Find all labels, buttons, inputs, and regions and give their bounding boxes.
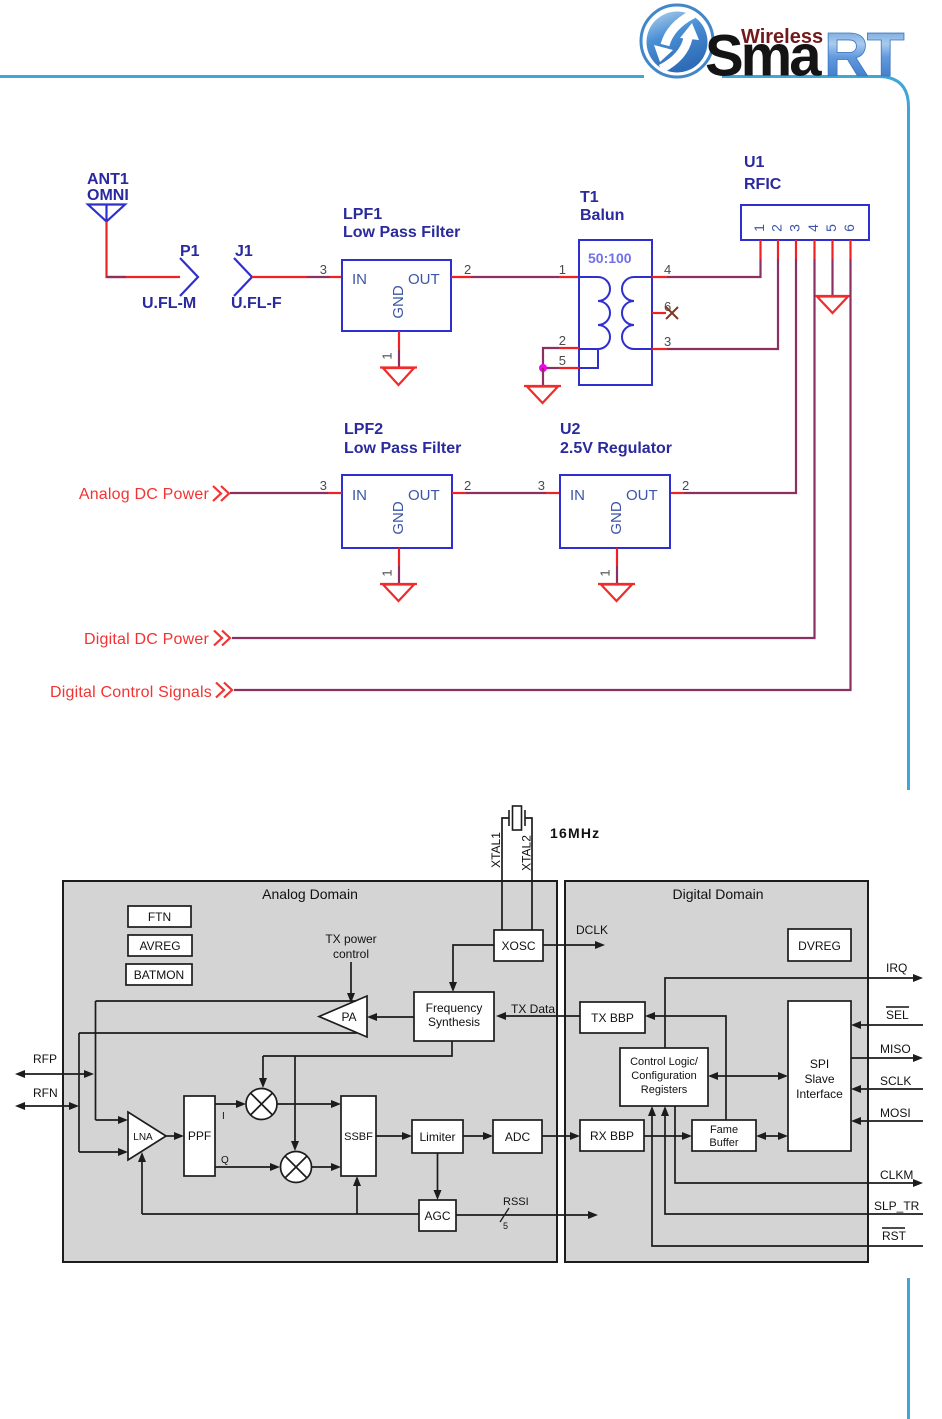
pin number 3 of T1 [664, 334, 671, 349]
ground under U1 pin5 [814, 296, 851, 313]
label ANT1 [87, 171, 129, 188]
svg-text:3: 3 [787, 224, 803, 232]
pin 6 stub and no-connect cross [652, 307, 678, 319]
label Low Pass Filter [343, 224, 460, 241]
regulator U2 [560, 475, 670, 548]
block SPI Slave Interface [788, 1001, 851, 1151]
svg-text:MOSI: MOSI [880, 1106, 911, 1120]
arrow Limiter to ADC [463, 1132, 493, 1140]
svg-text:5: 5 [503, 1221, 508, 1231]
svg-text:GND: GND [608, 501, 625, 535]
wire frame buffer to TX BBP [645, 1012, 726, 1120]
U1 pin number 5 [823, 224, 839, 232]
wire U1 pin6 digital control net [234, 259, 851, 690]
block BATMON [126, 964, 192, 985]
wire T1 pin5 to junction [543, 367, 579, 369]
svg-text:3: 3 [320, 262, 327, 277]
svg-text:SSBF: SSBF [344, 1131, 373, 1143]
svg-text:2: 2 [559, 333, 566, 348]
RSSI bus slash and width 5 [500, 1208, 509, 1231]
pin number 1 of LPF1 (gnd pin) [379, 352, 394, 359]
pin number 1 of U2 (gnd) [597, 569, 612, 576]
svg-text:5: 5 [559, 353, 566, 368]
arrow RX BBP to frame buffer [644, 1132, 692, 1140]
label TX power control [325, 932, 376, 961]
label IRQ [886, 961, 907, 975]
svg-text:Sma: Sma [705, 24, 822, 89]
svg-text:3: 3 [664, 334, 671, 349]
port Digital DC Power [84, 631, 230, 649]
pin number 3 of LPF1 [320, 262, 327, 277]
IRQ wire [665, 974, 923, 1048]
svg-text:16MHz: 16MHz [550, 825, 600, 841]
svg-text:OUT: OUT [626, 487, 658, 504]
label MOSI [880, 1106, 911, 1120]
port Digital Control Signals [50, 683, 232, 702]
label TX Data [511, 1002, 555, 1016]
svg-text:Balun: Balun [580, 207, 624, 224]
svg-text:XTAL1: XTAL1 [489, 832, 503, 868]
MISO wire [851, 1054, 923, 1062]
svg-text:FTN: FTN [148, 910, 171, 924]
wire U1 pin3 to U2 out [670, 259, 796, 493]
svg-text:1: 1 [597, 569, 612, 576]
pin number 3 of LPF2 [320, 478, 327, 493]
pin number 1 of T1 [559, 262, 566, 277]
label T1 [580, 189, 599, 206]
svg-text:GND: GND [390, 501, 407, 535]
label LPF2 [344, 421, 383, 438]
svg-text:1: 1 [559, 262, 566, 277]
svg-text:LNA: LNA [133, 1132, 153, 1143]
pin number 2 of LPF2 [464, 478, 471, 493]
svg-text:4: 4 [805, 224, 821, 232]
crystal 16MHz [509, 806, 525, 830]
label U.FL-F [231, 295, 282, 312]
pin number 2 of T1 [559, 333, 566, 348]
label SLP_TR [874, 1199, 920, 1213]
ground under U2 [598, 584, 635, 601]
amplifier LNA [128, 1112, 166, 1160]
svg-text:Q: Q [221, 1155, 229, 1166]
svg-text:Fame: Fame [710, 1124, 738, 1136]
RSSI wire from AGC into digital domain [456, 1211, 598, 1219]
analog domain box [63, 881, 557, 1262]
MOSI wire [851, 1117, 923, 1125]
filter LPF1 [342, 260, 451, 331]
SLP_TR wire [661, 1106, 923, 1214]
junction dot [539, 364, 547, 372]
label RST with overline [882, 1228, 907, 1243]
svg-text:OUT: OUT [408, 271, 440, 288]
svg-text:DCLK: DCLK [576, 923, 608, 937]
wire PPF to mixer I [215, 1100, 246, 1108]
svg-text:Slave: Slave [804, 1072, 834, 1086]
U1 pin number 6 [841, 224, 857, 232]
block TX BBP [580, 1002, 645, 1033]
svg-text:CLKM: CLKM [880, 1168, 913, 1182]
svg-text:TX Data: TX Data [511, 1002, 555, 1016]
wire analog dc power to LPF2 [230, 492, 342, 494]
svg-text:PPF: PPF [188, 1129, 211, 1143]
svg-text:PA: PA [341, 1010, 356, 1024]
label SCLK [880, 1074, 911, 1088]
antenna ANT1 [88, 205, 125, 222]
svg-text:RST: RST [882, 1229, 907, 1243]
label OMNI [87, 187, 129, 204]
connector J1 U.FL-F [234, 258, 252, 296]
svg-text:OUT: OUT [408, 487, 440, 504]
page top rule (blue) with rounded corner into right border [0, 77, 909, 791]
svg-text:OMNI: OMNI [87, 187, 129, 204]
ground under LPF2 [380, 584, 417, 601]
wire LPF2 gnd pin [398, 548, 400, 584]
svg-text:I: I [222, 1111, 225, 1122]
svg-text:Analog DC Power: Analog DC Power [79, 486, 210, 503]
block RX BBP [580, 1120, 644, 1151]
label Balun [580, 207, 624, 224]
svg-text:RT: RT [824, 21, 905, 90]
CLKM wire [675, 1106, 923, 1187]
wire mixer I to SSBF [277, 1100, 341, 1108]
digital domain box [565, 881, 868, 1262]
wire junction to ground [542, 368, 544, 386]
ground under T1 [524, 386, 561, 403]
svg-text:Synthesis: Synthesis [428, 1015, 480, 1029]
pin number 4 of T1 [664, 262, 671, 277]
block Frequency Synthesis [414, 992, 494, 1041]
label Q [221, 1155, 229, 1166]
block FTN [128, 906, 191, 927]
wire PA upper tap [96, 1000, 357, 1002]
label RFP [33, 1052, 57, 1066]
pin number 3 of U2 [538, 478, 545, 493]
mixer Q [281, 1152, 312, 1183]
ground under LPF1 [380, 368, 417, 386]
label RFN [33, 1086, 58, 1100]
label CLKM [880, 1168, 913, 1182]
SCLK wire [851, 1085, 923, 1093]
svg-text:Interface: Interface [796, 1087, 843, 1101]
logo word RT [824, 21, 905, 90]
svg-text:RX BBP: RX BBP [590, 1129, 634, 1143]
label Digital Domain [672, 886, 763, 902]
label RSSI [503, 1196, 529, 1208]
AGC control wire to LNA and SSBF [138, 1152, 419, 1214]
svg-text:Control Logic/: Control Logic/ [630, 1056, 699, 1068]
arrow rail to LNA upper input [96, 1116, 129, 1124]
rail RFP vertical [95, 1001, 97, 1120]
svg-text:Configuration: Configuration [631, 1070, 696, 1082]
svg-text:Frequency: Frequency [426, 1001, 483, 1015]
arrow rail to LNA lower input [79, 1148, 128, 1156]
U1 pin number 2 [769, 224, 785, 232]
pin number 1 of LPF2 (gnd) [379, 569, 394, 576]
svg-text:P1: P1 [180, 243, 200, 260]
logo background patch [644, 70, 722, 83]
RST wire [648, 1106, 923, 1246]
svg-text:RFN: RFN [33, 1086, 58, 1100]
U1 pin number 1 [751, 224, 767, 232]
svg-text:SLP_TR: SLP_TR [874, 1199, 920, 1213]
mixer I [246, 1089, 277, 1120]
svg-text:3: 3 [320, 478, 327, 493]
wire U1 pin4 digital dc power net [232, 259, 815, 638]
svg-text:U2: U2 [560, 421, 581, 438]
wire T1 pin2 to junction [543, 348, 579, 368]
svg-text:TX BBP: TX BBP [591, 1011, 634, 1025]
wire antenna to P1 [107, 222, 181, 278]
svg-text:MISO: MISO [880, 1042, 911, 1056]
block AGC [419, 1200, 456, 1231]
label XTAL1 [489, 832, 503, 868]
logo globe icon [641, 5, 713, 77]
wire U1 pin5 to ground [831, 259, 833, 296]
svg-text:IN: IN [352, 487, 367, 504]
block Limiter [412, 1120, 463, 1153]
svg-text:U1: U1 [744, 154, 765, 171]
arrow LNA to PPF [166, 1132, 184, 1140]
svg-text:ANT1: ANT1 [87, 171, 129, 188]
arrow TX power control to PA [347, 962, 355, 1003]
pin number 6 of T1 [664, 299, 671, 314]
wire PA lower tap [79, 1032, 357, 1034]
block PPF [184, 1096, 215, 1176]
wire LPF1 out to T1 pin1 [451, 276, 579, 278]
svg-text:LPF1: LPF1 [343, 206, 382, 223]
label P1 [180, 243, 200, 260]
wire TX Data from TX BBP to frequency synthesis [496, 1012, 580, 1020]
arrow ADC to RX BBP [542, 1132, 580, 1140]
U1 pin number 3 [787, 224, 803, 232]
svg-text:RFIC: RFIC [744, 176, 782, 193]
label I [222, 1111, 225, 1122]
svg-text:Digital Domain: Digital Domain [672, 886, 763, 902]
label 2.5V Regulator [560, 440, 672, 457]
block Control Logic Configuration Registers [620, 1048, 708, 1106]
wire XOSC to frequency synthesis [449, 945, 494, 992]
label Low Pass Filter 2 [344, 440, 461, 457]
svg-text:LPF2: LPF2 [344, 421, 383, 438]
label Analog Domain [262, 886, 358, 902]
block DVREG [788, 929, 851, 961]
svg-text:U.FL-M: U.FL-M [142, 295, 196, 312]
wire J1 to LPF1 pin3 [252, 276, 342, 278]
wire LPF1 gnd pin [398, 331, 400, 367]
label 16MHz [550, 825, 600, 841]
svg-text:IN: IN [352, 271, 367, 288]
label RFIC [744, 176, 782, 193]
svg-text:5: 5 [823, 224, 839, 232]
svg-text:SCLK: SCLK [880, 1074, 911, 1088]
pin number 2 of LPF1 [464, 262, 471, 277]
SEL wire [851, 1021, 923, 1029]
wire XTAL2 [525, 818, 532, 930]
filter LPF2 [342, 475, 452, 548]
logo word Sma [705, 24, 822, 89]
wire U2 gnd pin [616, 548, 618, 584]
svg-text:TX power: TX power [325, 932, 376, 946]
label SEL with overline [886, 1007, 909, 1022]
svg-text:2: 2 [464, 262, 471, 277]
port Analog DC Power [79, 486, 229, 503]
svg-text:AVREG: AVREG [139, 939, 180, 953]
svg-text:2: 2 [464, 478, 471, 493]
svg-text:control: control [333, 947, 369, 961]
svg-text:Limiter: Limiter [419, 1130, 455, 1144]
svg-text:GND: GND [390, 285, 407, 319]
pin number 5 of T1 [559, 353, 566, 368]
svg-text:2: 2 [769, 224, 785, 232]
page right border lower segment [907, 1278, 910, 1419]
svg-text:2: 2 [682, 478, 689, 493]
svg-text:SEL: SEL [886, 1008, 909, 1022]
svg-text:1: 1 [379, 569, 394, 576]
rail RFN vertical [78, 1033, 80, 1152]
label U.FL-M [142, 295, 196, 312]
wire XTAL1 [502, 818, 509, 930]
svg-text:AGC: AGC [424, 1209, 450, 1223]
svg-text:J1: J1 [235, 243, 253, 260]
arrow SSBF to Limiter [376, 1132, 412, 1140]
svg-text:U.FL-F: U.FL-F [231, 295, 282, 312]
svg-text:6: 6 [841, 224, 857, 232]
svg-text:Digital Control Signals: Digital Control Signals [50, 684, 212, 701]
wire LPF2 out to U2 in [452, 492, 560, 494]
label J1 [235, 243, 253, 260]
svg-text:IRQ: IRQ [886, 961, 907, 975]
connector P1 U.FL-M [180, 258, 198, 296]
port RFN arrow [15, 1102, 79, 1110]
svg-text:1: 1 [379, 352, 394, 359]
svg-text:IN: IN [570, 487, 585, 504]
svg-text:2.5V Regulator: 2.5V Regulator [560, 440, 672, 457]
svg-text:XOSC: XOSC [501, 939, 535, 953]
svg-text:DVREG: DVREG [798, 939, 841, 953]
block ADC [493, 1120, 542, 1153]
svg-text:RFP: RFP [33, 1052, 57, 1066]
svg-text:Low Pass Filter: Low Pass Filter [343, 224, 460, 241]
svg-text:4: 4 [664, 262, 671, 277]
port RFP arrow [15, 1070, 94, 1078]
svg-text:SPI: SPI [810, 1057, 829, 1071]
block Fame Buffer [692, 1120, 756, 1151]
label XTAL2 [520, 835, 534, 871]
label U2 [560, 421, 581, 438]
label LPF1 [343, 206, 382, 223]
U1 pin number 4 [805, 224, 821, 232]
amplifier PA [319, 996, 367, 1037]
svg-text:Analog Domain: Analog Domain [262, 886, 358, 902]
wire DCLK from XOSC [543, 941, 605, 949]
logo word Wireless [741, 26, 823, 48]
svg-text:XTAL2: XTAL2 [520, 835, 534, 871]
IC U1 RFIC [741, 205, 869, 240]
label DCLK [576, 923, 608, 937]
arrow frequency synthesis to PA [367, 1013, 414, 1021]
wire mixer Q to SSBF [312, 1163, 341, 1171]
block SSBF [341, 1096, 376, 1176]
label U1 [744, 154, 765, 171]
svg-text:Digital DC Power: Digital DC Power [84, 631, 209, 648]
svg-text:1: 1 [751, 224, 767, 232]
LO wire from frequency synthesis to mixers [259, 1041, 452, 1151]
block AVREG [128, 935, 192, 956]
svg-text:Registers: Registers [641, 1084, 688, 1096]
svg-text:Low Pass Filter: Low Pass Filter [344, 440, 461, 457]
svg-text:Buffer: Buffer [709, 1137, 738, 1149]
wire T1 pin3 to U1 pin2 [652, 259, 778, 349]
wire PPF to mixer Q [215, 1163, 280, 1171]
U1 pin stubs [761, 240, 851, 259]
pin number 2 of U2 [682, 478, 689, 493]
svg-text:T1: T1 [580, 189, 599, 206]
svg-text:3: 3 [538, 478, 545, 493]
svg-text:RSSI: RSSI [503, 1196, 529, 1208]
wire T1 pin4 to U1 pin1 [652, 259, 761, 277]
double arrow control logic to SPI [708, 1072, 788, 1080]
label MISO [880, 1042, 911, 1056]
double arrow frame buffer to SPI [756, 1132, 788, 1140]
transformer T1 balun [579, 240, 652, 385]
svg-text:ADC: ADC [505, 1130, 531, 1144]
block XOSC [494, 930, 543, 961]
svg-text:BATMON: BATMON [134, 968, 184, 982]
svg-text:50:100: 50:100 [588, 250, 632, 266]
arrow Limiter down to AGC [434, 1153, 442, 1200]
